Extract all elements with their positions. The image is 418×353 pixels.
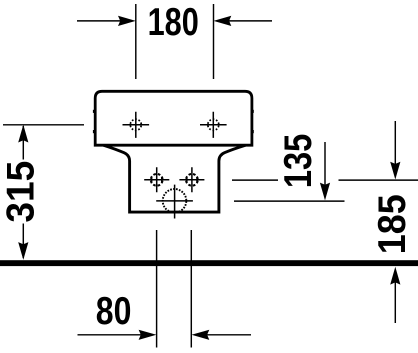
dimension 180: leaders with arrows (77, 16, 272, 26)
dimension 180: extension line left (135, 4, 137, 79)
dimension 80: extension line right (190, 230, 192, 348)
svg-text:135: 135 (275, 134, 319, 188)
svg-text:185: 185 (370, 194, 414, 254)
flange side profile ticks (93, 110, 254, 133)
drain hole (dotted circle with centerlines) (156, 185, 193, 219)
fixing hole left (dotted circle with centerlines) (123, 112, 150, 138)
dimension 185: extension line at tap-hole height (broken around 135 label) (232, 179, 418, 181)
dimension 185: lower dimension line with up arrow (390, 267, 400, 323)
svg-text:315: 315 (0, 161, 43, 223)
dimension 315: dimension line with arrows (18, 125, 28, 260)
dimension 80: leaders with arrows (78, 330, 252, 340)
bidet body flange outline (95, 91, 252, 145)
dimension 80: extension line left (156, 230, 158, 348)
bidet body lower sump outline (104, 145, 246, 212)
svg-text:180: 180 (148, 1, 199, 44)
dimension 185: upper dimension line with down arrow (390, 121, 400, 180)
svg-text:80: 80 (96, 289, 132, 333)
tap hole left (dashed circle with centerlines and tangent ticks) (144, 167, 169, 192)
dimension 315: extension line at fixing-hole height (3, 124, 84, 126)
dimension 180: extension line right (213, 4, 215, 79)
floor line (0, 260, 418, 266)
tap hole right (dashed circle with centerlines and tangent ticks) (179, 167, 204, 192)
fixing hole right (dotted circle with centerlines) (200, 112, 227, 138)
dimension 135: extension line at drain centre (234, 200, 345, 202)
dimension 135: dimension line with down arrow (320, 142, 330, 200)
